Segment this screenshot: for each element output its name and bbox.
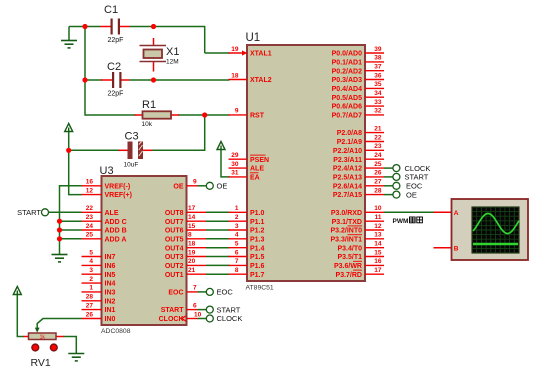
- svg-text:22pF: 22pF: [108, 91, 124, 98]
- U3 pin 7 EOC: [168, 285, 197, 297]
- wire ADD A branch: [60, 238, 82, 240]
- wire ADD C branch: [60, 220, 82, 222]
- svg-text:11: 11: [375, 214, 382, 221]
- svg-text:10: 10: [374, 205, 382, 212]
- svg-text:P2.7/A15: P2.7/A15: [333, 192, 362, 199]
- svg-text:20: 20: [188, 258, 196, 265]
- svg-text:29: 29: [231, 152, 239, 159]
- svg-text:P0.7/AD7: P0.7/AD7: [332, 113, 362, 120]
- svg-text:ADC0808: ADC0808: [101, 328, 131, 335]
- svg-text:RV1: RV1: [31, 357, 51, 369]
- svg-text:OE: OE: [406, 190, 417, 199]
- svg-text:IN2: IN2: [105, 298, 116, 305]
- svg-text:P2.0/A8: P2.0/A8: [337, 130, 362, 137]
- U1 pin 7 P1.6: [229, 258, 265, 270]
- U1 pin 1 P1.0: [229, 205, 265, 217]
- value 10k: [142, 121, 153, 128]
- svg-text:6: 6: [235, 249, 239, 256]
- svg-text:ADD A: ADD A: [105, 236, 127, 243]
- svg-text:13: 13: [374, 232, 382, 239]
- U1 pin 32 P0.7/AD7: [332, 108, 384, 120]
- svg-text:P0.1/AD1: P0.1/AD1: [332, 60, 362, 67]
- label CLOCK (ADC side): [217, 314, 243, 323]
- ground (top-left): [61, 27, 77, 48]
- svg-text:IN6: IN6: [105, 263, 116, 270]
- svg-text:6: 6: [193, 302, 197, 309]
- svg-text:START: START: [217, 305, 241, 314]
- label AT89C51: [246, 285, 274, 292]
- svg-text:ADD C: ADD C: [105, 219, 127, 226]
- svg-text:RST: RST: [250, 113, 265, 120]
- label RV1: [31, 357, 51, 369]
- svg-text:9: 9: [193, 179, 197, 186]
- node scope B lead: [434, 247, 452, 249]
- U1 pin 8 P1.7: [229, 267, 265, 279]
- svg-text:7: 7: [235, 258, 239, 265]
- U1 pin 17 P3.7/RD: [336, 267, 384, 279]
- svg-text:OUT7: OUT7: [165, 219, 184, 226]
- svg-text:P0.3/AD3: P0.3/AD3: [332, 77, 362, 84]
- terminal dot RV1 pin B: [50, 344, 57, 351]
- svg-text:28: 28: [86, 294, 94, 301]
- terminal CLOCK (MCU side): [393, 165, 400, 172]
- U3 pin 9 OE: [173, 179, 197, 191]
- svg-text:14: 14: [188, 214, 196, 221]
- net label PWM output (PWM输出): [393, 217, 423, 225]
- svg-text:39: 39: [374, 46, 382, 53]
- U1 pin 18 XTAL2: [229, 72, 272, 84]
- svg-text:VREF(+): VREF(+): [105, 192, 132, 199]
- svg-text:28: 28: [374, 187, 382, 194]
- U3 pin 22 ALE: [82, 205, 119, 217]
- ground (RV1): [68, 354, 84, 361]
- U1 pin 19 XTAL1: [229, 46, 272, 58]
- wire ADC OE/EOC/START/CLOCK to terminals: [198, 186, 207, 319]
- svg-text:P1.3: P1.3: [250, 236, 265, 243]
- svg-text:37: 37: [374, 64, 382, 71]
- U3 pin 18 OUT4: [165, 241, 206, 253]
- U1 pin 26 P2.5/A13: [333, 170, 384, 182]
- U1 pin 38 P0.1/AD1: [332, 55, 384, 67]
- svg-text:ADD B: ADD B: [105, 228, 127, 235]
- U1 pin 12 P3.2/INT0: [330, 223, 384, 235]
- svg-text:8: 8: [188, 232, 192, 239]
- svg-text:2: 2: [235, 214, 239, 221]
- svg-text:18: 18: [231, 72, 239, 79]
- svg-text:1: 1: [235, 205, 239, 212]
- U1 pin 31 EA: [229, 170, 260, 182]
- U3 pin 12 VREF(+): [82, 187, 132, 199]
- svg-text:12M: 12M: [166, 59, 179, 66]
- svg-text:P1.0: P1.0: [250, 210, 265, 217]
- svg-text:P1.5: P1.5: [250, 254, 265, 261]
- U3 pin 25 ADD A: [82, 232, 127, 244]
- svg-text:OUT8: OUT8: [165, 210, 184, 217]
- svg-text:10: 10: [194, 311, 202, 318]
- svg-text:P2.3/A11: P2.3/A11: [333, 157, 362, 164]
- svg-text:IN3: IN3: [105, 290, 116, 297]
- U3 pin 17 OUT8: [165, 205, 206, 217]
- U1 pin 9 RST: [229, 108, 265, 120]
- svg-text:5: 5: [89, 249, 93, 256]
- svg-text:35: 35: [374, 81, 382, 88]
- svg-text:31: 31: [231, 170, 239, 177]
- svg-text:P0.2/AD2: P0.2/AD2: [332, 68, 362, 75]
- svg-text:15: 15: [374, 249, 382, 256]
- svg-text:1: 1: [89, 285, 93, 292]
- terminal dot RV1 pin A: [32, 344, 39, 351]
- U1 pin 16 P3.6/WR: [334, 258, 384, 270]
- svg-text:27: 27: [374, 179, 382, 186]
- svg-text:OE: OE: [217, 182, 228, 191]
- svg-text:IN1: IN1: [105, 307, 116, 314]
- U1 pin 22 P2.1/A9: [337, 134, 384, 146]
- value 12M: [166, 59, 179, 66]
- wire left vertical bus x=85: [84, 27, 86, 116]
- svg-text:22: 22: [86, 205, 94, 212]
- svg-text:P3.0/RXD: P3.0/RXD: [331, 210, 362, 217]
- U1 pin 21 P2.0/A8: [337, 125, 384, 137]
- U3 pin 4 IN6: [82, 258, 116, 270]
- label C1: [104, 4, 118, 16]
- microcontroller U1 AT89C51 body: [247, 45, 365, 281]
- svg-text:23: 23: [374, 143, 382, 150]
- svg-text:10uF: 10uF: [124, 162, 139, 169]
- svg-text:EOC: EOC: [217, 288, 234, 297]
- svg-text:OE: OE: [173, 183, 183, 190]
- svg-text:14: 14: [374, 241, 382, 248]
- svg-text:START: START: [17, 208, 41, 217]
- wire EA +5V stem: [221, 150, 230, 177]
- svg-text:8: 8: [235, 267, 239, 274]
- label EOC (ADC side): [217, 288, 234, 297]
- svg-text:32: 32: [374, 108, 382, 115]
- U1 pin 33 P0.6/AD6: [332, 99, 384, 111]
- label C2: [107, 61, 121, 73]
- svg-text:B: B: [454, 245, 459, 252]
- U3 pin 6 START: [161, 302, 198, 314]
- svg-text:2: 2: [89, 276, 93, 283]
- value 22pF (C1): [108, 37, 124, 44]
- svg-text:P0.6/AD6: P0.6/AD6: [332, 104, 362, 111]
- U1 pin 4 P1.3: [229, 232, 265, 244]
- svg-text:5: 5: [235, 241, 239, 248]
- label EOC (MCU side): [406, 182, 423, 191]
- svg-text:19: 19: [188, 249, 196, 256]
- wire top rail from ground to C1: [69, 26, 100, 28]
- terminal START (ADC side): [206, 306, 213, 313]
- capacitor C1: [100, 19, 130, 35]
- svg-text:26: 26: [374, 170, 382, 177]
- svg-text:P3.7/RD: P3.7/RD: [336, 272, 362, 279]
- U1 pin 2 P1.1: [229, 214, 265, 226]
- svg-text:36: 36: [374, 72, 382, 79]
- svg-text:OUT2: OUT2: [165, 263, 184, 270]
- terminal EOC (MCU side): [393, 182, 400, 189]
- label ADC0808: [101, 328, 131, 335]
- wire C2 right to XTAL2: [130, 79, 230, 81]
- svg-text:ALE: ALE: [105, 210, 119, 217]
- junction ADD C: [57, 219, 62, 224]
- terminal EOC (ADC side): [206, 288, 213, 295]
- svg-text:OUT4: OUT4: [165, 245, 184, 252]
- U3 pin 23 ADD C: [82, 214, 127, 226]
- svg-text:24: 24: [374, 152, 382, 159]
- svg-text:P3.6/WR: P3.6/WR: [334, 263, 362, 270]
- label U1: [246, 32, 261, 44]
- svg-text:P3.2/INT0: P3.2/INT0: [330, 228, 362, 235]
- svg-text:17: 17: [188, 205, 196, 212]
- label U3: [100, 165, 114, 177]
- U1 pin 11 P3.1/TXD: [332, 214, 384, 226]
- svg-text:4: 4: [235, 232, 239, 239]
- svg-text:P3.3/INT1: P3.3/INT1: [330, 236, 362, 243]
- wire R1 row left: [85, 114, 136, 116]
- wire R1 right to RST: [178, 114, 230, 116]
- power +5V arrow (RV1): [13, 287, 21, 295]
- svg-text:P1.1: P1.1: [250, 219, 265, 226]
- label R1: [142, 99, 156, 111]
- junction ADD B: [57, 227, 62, 232]
- svg-text:C2: C2: [107, 61, 121, 73]
- wire RV1 wiper to IN0: [37, 319, 81, 330]
- svg-text:27: 27: [86, 302, 94, 309]
- U3 pin 3 IN5: [82, 267, 116, 279]
- terminal CLOCK (ADC side): [206, 315, 213, 322]
- wire +5V stem to VREF+: [69, 131, 82, 195]
- svg-text:34: 34: [374, 90, 382, 97]
- svg-text:22pF: 22pF: [108, 37, 124, 44]
- svg-text:VREF(-): VREF(-): [105, 183, 131, 190]
- svg-text:PWM: PWM: [393, 218, 409, 225]
- svg-text:P2.1/A9: P2.1/A9: [337, 139, 362, 146]
- svg-text:R1: R1: [142, 99, 156, 111]
- svg-text:IN0: IN0: [105, 316, 116, 323]
- svg-text:CLOCK: CLOCK: [405, 164, 431, 173]
- U1 pin 6 P1.5: [229, 249, 265, 261]
- wire stubs to CLOCK/START/EOC/OE terminals: [384, 168, 393, 195]
- svg-text:A: A: [454, 210, 459, 217]
- svg-text:IN7: IN7: [105, 254, 116, 261]
- U1 pin 28 P2.7/A15: [333, 187, 384, 199]
- wire bus ADC OUT to P1 (8 lines): [206, 212, 230, 274]
- svg-text:XTAL1: XTAL1: [250, 51, 272, 58]
- svg-text:P0.0/AD0: P0.0/AD0: [332, 51, 362, 58]
- svg-text:12: 12: [86, 187, 94, 194]
- svg-text:30: 30: [231, 161, 239, 168]
- svg-text:EA: EA: [250, 175, 260, 182]
- svg-text:26: 26: [86, 311, 94, 318]
- U1 pin 23 P2.2/A10: [333, 143, 384, 155]
- svg-text:EOC: EOC: [168, 290, 183, 297]
- U3 pin 19 OUT3: [165, 249, 206, 261]
- svg-text:START: START: [405, 173, 429, 182]
- U3 pin 5 IN7: [82, 249, 116, 261]
- power +5V arrow (EA): [217, 142, 225, 150]
- U3 pin 27 IN1: [82, 302, 116, 314]
- wire RST junction down to C3 row: [204, 115, 206, 150]
- wire C1 right to corner: [130, 26, 206, 28]
- potentiometer RV1: [24, 328, 64, 341]
- power +5V arrow (VREF+): [65, 124, 73, 132]
- terminal START (MCU side): [393, 173, 400, 180]
- svg-text:P3.4/T0: P3.4/T0: [337, 245, 362, 252]
- U3 pin 24 ADD B: [82, 223, 127, 235]
- svg-text:P1.7: P1.7: [250, 272, 265, 279]
- svg-text:1k: 1k: [40, 335, 46, 341]
- svg-text:P2.2/A10: P2.2/A10: [333, 148, 362, 155]
- oscilloscope channel B label: [454, 245, 459, 252]
- svg-text:18: 18: [188, 241, 196, 248]
- capacitor C3 (electrolytic): [119, 142, 153, 160]
- svg-text:24: 24: [86, 223, 94, 230]
- wire RV1 +5V stem: [17, 295, 24, 337]
- svg-text:19: 19: [231, 46, 239, 53]
- svg-text:P1.4: P1.4: [250, 245, 265, 252]
- svg-text:16: 16: [374, 258, 382, 265]
- U1 pin 39 P0.0/AD0: [332, 46, 384, 58]
- crystal X1: [140, 38, 167, 72]
- svg-text:16: 16: [86, 179, 94, 186]
- svg-text:P1.6: P1.6: [250, 263, 265, 270]
- svg-text:12: 12: [374, 223, 382, 230]
- wire C3 right to riser: [152, 149, 206, 151]
- svg-text:U1: U1: [246, 32, 261, 44]
- svg-text:C3: C3: [125, 131, 139, 143]
- ADC U3 ADC0808 body: [102, 176, 187, 325]
- U1 pin 29 PSEN: [229, 152, 270, 164]
- svg-text:23: 23: [86, 214, 94, 221]
- U3 pin 15 OUT6: [165, 223, 206, 235]
- junction X1 bottom: [151, 77, 156, 82]
- label START (ADC side): [217, 305, 241, 314]
- wire VREF- to ground bus: [60, 186, 82, 254]
- svg-text:IN5: IN5: [105, 272, 116, 279]
- svg-text:15: 15: [188, 223, 196, 230]
- wire corner down to XTAL1 row: [204, 27, 206, 54]
- svg-text:P3.5/T1: P3.5/T1: [337, 254, 362, 261]
- svg-text:22: 22: [374, 134, 382, 141]
- svg-text:P2.5/A13: P2.5/A13: [333, 175, 362, 182]
- svg-text:ALE: ALE: [250, 166, 264, 173]
- svg-text:CLOCK: CLOCK: [159, 316, 184, 323]
- U1 pin 13 P3.3/INT1: [330, 232, 384, 244]
- U3 pin 8 OUT5: [165, 232, 206, 244]
- U1 pin 14 P3.4/T0: [337, 241, 384, 253]
- svg-text:7: 7: [193, 285, 197, 292]
- U3 pin 10 CLOCK: [159, 311, 202, 323]
- U1 pin 36 P0.3/AD3: [332, 72, 384, 84]
- U3 pin 14 OUT7: [165, 214, 206, 226]
- svg-text:OUT3: OUT3: [165, 254, 184, 261]
- svg-text:IN4: IN4: [105, 281, 116, 288]
- svg-text:U3: U3: [100, 165, 114, 177]
- wire C2 row left: [85, 79, 102, 81]
- junction RST: [202, 112, 207, 117]
- U1 pin 3 P1.2: [229, 223, 265, 235]
- label CLOCK (MCU side): [405, 164, 431, 173]
- U3 pin 21 OUT1: [165, 267, 206, 279]
- label C3: [125, 131, 139, 143]
- wire START terminal to ALE: [49, 211, 82, 213]
- wire ADD B branch: [60, 229, 82, 231]
- label START (MCU side): [405, 173, 429, 182]
- wire P3.0 to scope A: [384, 211, 434, 213]
- label X1: [166, 46, 179, 58]
- svg-text:PSEN: PSEN: [250, 157, 269, 164]
- capacitor C2: [101, 72, 130, 88]
- svg-text:25: 25: [86, 232, 94, 239]
- svg-text:XTAL2: XTAL2: [250, 77, 272, 84]
- wire to XTAL1: [205, 52, 230, 54]
- svg-text:4: 4: [89, 258, 93, 265]
- svg-text:OUT5: OUT5: [165, 236, 184, 243]
- svg-text:X1: X1: [166, 46, 179, 58]
- junction X1 top: [151, 24, 156, 29]
- junction C2 row: [82, 77, 87, 82]
- junction top rail: [82, 24, 87, 29]
- resistor R1: [135, 111, 180, 118]
- U1 pin 27 P2.6/A14: [333, 179, 384, 191]
- U1 pin 34 P0.5/AD5: [332, 90, 384, 102]
- terminal OE (ADC side): [206, 182, 213, 189]
- svg-text:25: 25: [374, 161, 382, 168]
- junction ADD A: [57, 236, 62, 241]
- U1 pin 37 P0.2/AD2: [332, 64, 384, 76]
- svg-text:START: START: [161, 307, 185, 314]
- U1 pin 10 P3.0/RXD: [331, 205, 384, 217]
- U3 pin 1 IN3: [82, 285, 116, 297]
- label START (left): [17, 208, 41, 217]
- svg-text:OUT1: OUT1: [165, 272, 184, 279]
- oscilloscope body and screen: [452, 199, 529, 260]
- wire RV1 right to ground: [63, 337, 76, 354]
- svg-text:17: 17: [374, 267, 382, 274]
- terminal OE (MCU side): [393, 191, 400, 198]
- U3 pin 16 VREF(-): [82, 179, 131, 191]
- node scope A lead: [434, 211, 452, 213]
- value 10uF: [124, 162, 139, 169]
- U1 pin 25 P2.4/A12: [333, 161, 384, 173]
- U3 pin 26 IN0: [82, 311, 116, 323]
- svg-text:P0.5/AD5: P0.5/AD5: [332, 95, 362, 102]
- svg-text:P2.4/A12: P2.4/A12: [333, 166, 362, 173]
- svg-text:P1.2: P1.2: [250, 228, 265, 235]
- value 22pF (C2): [108, 91, 124, 98]
- U3 pin 20 OUT2: [165, 258, 206, 270]
- U1 pin 35 P0.4/AD4: [332, 81, 384, 93]
- svg-text:P3.1/TXD: P3.1/TXD: [332, 219, 362, 226]
- label OE (MCU side): [406, 190, 417, 199]
- svg-text:CLOCK: CLOCK: [217, 314, 243, 323]
- svg-text:33: 33: [374, 99, 382, 106]
- svg-text:AT89C51: AT89C51: [246, 285, 274, 292]
- svg-text:EOC: EOC: [406, 182, 423, 191]
- svg-text:9: 9: [235, 108, 239, 115]
- svg-text:P0.4/AD4: P0.4/AD4: [332, 86, 362, 93]
- svg-text:OUT6: OUT6: [165, 228, 184, 235]
- svg-text:10k: 10k: [142, 121, 153, 128]
- svg-text:C1: C1: [104, 4, 118, 16]
- U1 pin 15 P3.5/T1: [337, 249, 384, 261]
- U1 pin 24 P2.3/A11: [333, 152, 384, 164]
- U3 pin 2 IN4: [82, 276, 116, 288]
- svg-text:21: 21: [188, 267, 196, 274]
- svg-text:P2.6/A14: P2.6/A14: [333, 183, 362, 190]
- label OE (ADC side): [217, 182, 228, 191]
- U1 pin 5 P1.4: [229, 241, 265, 253]
- junction C3/+5V: [66, 148, 71, 153]
